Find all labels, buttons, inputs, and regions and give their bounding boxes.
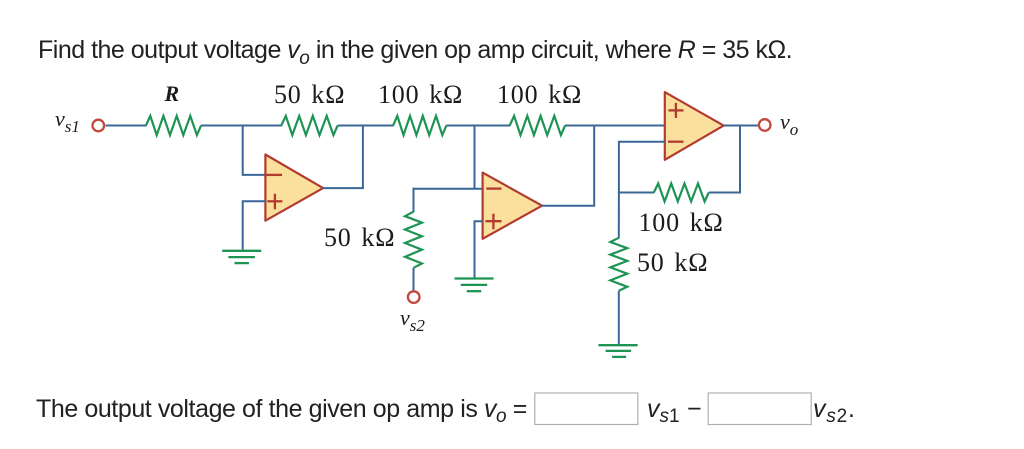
node vs1 terminal — [93, 120, 105, 132]
wire U1 noninverting input to ground — [243, 201, 266, 250]
wire feedback left lead — [619, 192, 654, 194]
ground G1 — [222, 251, 261, 263]
wire 50k to 100k, node 2 — [338, 125, 394, 127]
wire down to 50k vertical mid — [413, 188, 415, 213]
resistor 50k vertical mid — [405, 212, 422, 268]
wire node4 to U3 noninverting input — [565, 125, 665, 127]
svg-text:100 kΩ: 100 kΩ — [497, 80, 582, 109]
node vs2 terminal — [408, 291, 420, 303]
op-amp U3 — [665, 92, 724, 160]
wire feedback node down to 50k vertical right — [618, 193, 620, 239]
svg-text:50 kΩ: 50 kΩ — [324, 223, 395, 252]
svg-text:−: − — [687, 395, 702, 423]
answer box 1 — [535, 393, 638, 425]
wire U3 output to vo terminal — [723, 125, 758, 127]
wire 50k mid to vs2 terminal — [413, 268, 415, 291]
svg-text:100 kΩ: 100 kΩ — [378, 80, 463, 109]
resistor 100k feedback — [654, 184, 709, 202]
answer box 2 — [708, 393, 811, 425]
wire R to 50k, node 1 — [201, 125, 282, 127]
wire node1 down to U1 inverting input — [243, 126, 266, 175]
wire feedback right lead up to output — [709, 126, 740, 193]
wire U2 inverting input horizontal — [414, 188, 483, 190]
wire U2 noninverting input to ground — [475, 221, 483, 277]
resistor 100k first — [393, 116, 446, 135]
wire vs1 to R — [106, 125, 147, 127]
ground G3 — [599, 345, 638, 357]
resistor R — [146, 116, 201, 135]
svg-text:50 kΩ: 50 kΩ — [274, 80, 345, 109]
node vo terminal — [759, 119, 771, 131]
wire U3 inverting input to feedback node — [619, 142, 665, 193]
op-amp U2 — [483, 173, 542, 239]
svg-text:100 kΩ: 100 kΩ — [639, 208, 724, 237]
wire 50k right to ground — [618, 291, 620, 345]
wire 100k1 to 100k2, node 3 — [446, 125, 510, 127]
wire U2 output up to node 4 — [542, 126, 595, 206]
wire node3 down to U2 inverting node — [474, 126, 476, 189]
resistor 100k second — [510, 116, 565, 135]
op-amp U1 — [265, 155, 323, 221]
svg-text:50 kΩ: 50 kΩ — [637, 248, 708, 277]
resistor 50k top — [281, 116, 337, 135]
ground G2 — [455, 279, 494, 292]
svg-text:The output voltage of the give: The output voltage of the given op amp i… — [36, 395, 527, 427]
resistor 50k vertical right — [610, 238, 627, 291]
wire U1 output up to node 2 — [323, 126, 363, 189]
svg-text:R: R — [164, 81, 180, 106]
